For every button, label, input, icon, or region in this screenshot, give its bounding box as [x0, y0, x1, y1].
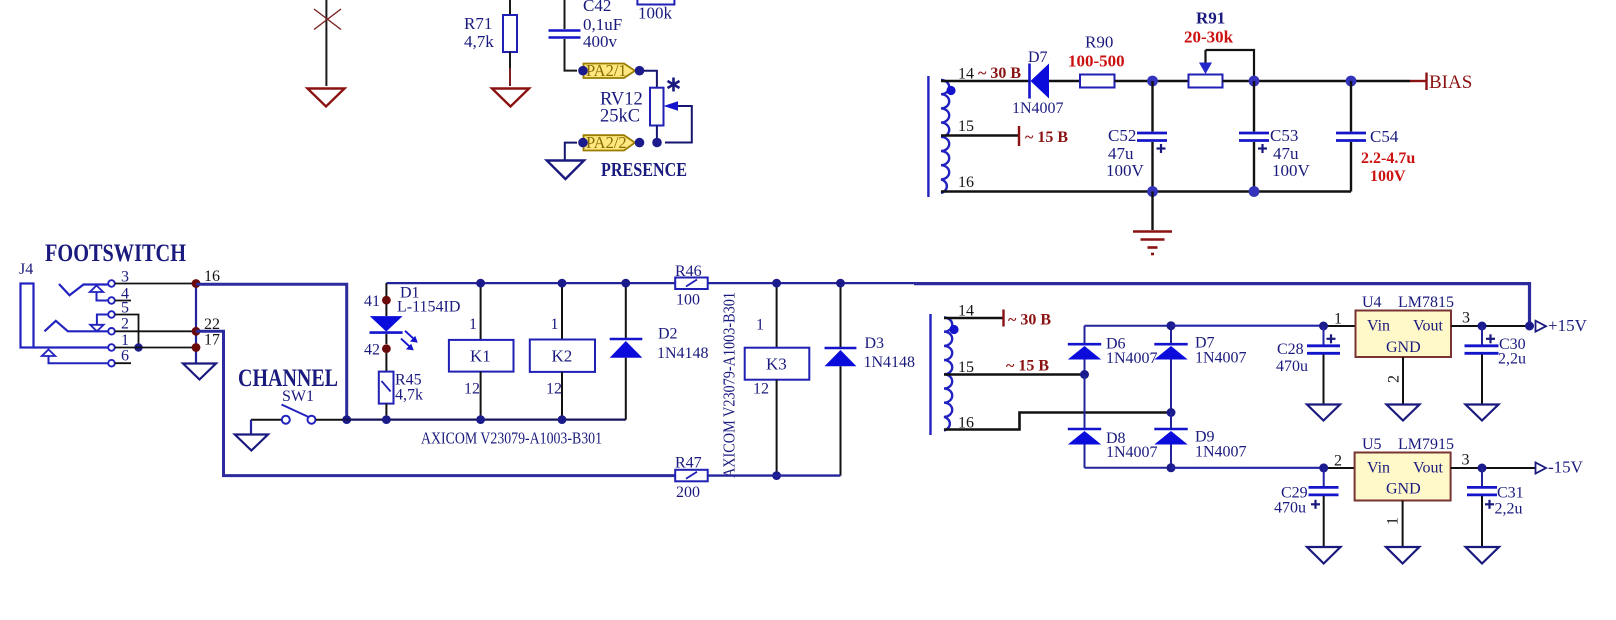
wire -rail to U5	[1171, 467, 1355, 469]
ground GND6	[235, 435, 268, 451]
label T1 pin 14	[958, 66, 974, 83]
node K2 top	[558, 279, 567, 288]
svg-text:100V: 100V	[1272, 161, 1311, 180]
svg-text:12: 12	[546, 381, 562, 398]
label D1	[397, 285, 460, 316]
ground GND7 (C28)	[1307, 405, 1340, 421]
svg-text:~ 15 B: ~ 15 B	[1025, 129, 1068, 146]
svg-text:-15V: -15V	[1548, 458, 1584, 477]
diode D8	[1068, 375, 1101, 468]
svg-text:2.2-4.7u: 2.2-4.7u	[1361, 150, 1415, 167]
label T1 pin 16	[958, 174, 974, 191]
node 16	[192, 268, 220, 288]
resistor R90	[1080, 75, 1115, 88]
label C42 value	[583, 0, 622, 51]
svg-text:1N4007: 1N4007	[1195, 444, 1247, 461]
svg-text:12: 12	[753, 381, 769, 398]
label D2	[657, 326, 709, 363]
ground GND1	[308, 89, 345, 107]
svg-text:2: 2	[121, 316, 129, 333]
wire SW1 to ground	[250, 420, 252, 434]
svg-text:1: 1	[1334, 311, 1342, 328]
node 22	[192, 316, 220, 336]
LED D1 emission arrows	[401, 331, 418, 351]
svg-text:SW1: SW1	[282, 388, 314, 405]
svg-text:C42: C42	[583, 0, 611, 15]
wire R46 to K3/D3 bus	[708, 282, 914, 284]
capacitor C52	[1137, 81, 1167, 192]
svg-text:U4: U4	[1362, 294, 1382, 311]
label CHANNEL	[238, 365, 338, 392]
potentiometer R91	[1189, 50, 1255, 88]
wire +15V feed bus (thick)	[914, 284, 1530, 327]
label U5 pin3	[1462, 452, 1470, 469]
label C29	[1274, 485, 1308, 517]
wire relay bottom bus	[343, 419, 626, 421]
regulator U5 LM7915	[1355, 453, 1451, 501]
label net ~30 B	[978, 65, 1021, 82]
ground GND9 (C30)	[1466, 405, 1499, 421]
ground GND5	[183, 364, 216, 380]
wire U5 gnd	[1402, 501, 1404, 547]
label net ~30 B (bottom)	[1008, 312, 1051, 329]
label U5 pin1	[1385, 517, 1402, 525]
label D7 (bridge)	[1195, 335, 1247, 367]
svg-text:200: 200	[676, 484, 700, 501]
svg-text:100k: 100k	[638, 4, 673, 23]
svg-text:17: 17	[204, 332, 220, 349]
label R45	[395, 372, 423, 404]
label net ~15 B (top)	[1025, 129, 1068, 146]
T1 polarity dot	[946, 86, 955, 95]
wire pin5 to pin1	[115, 315, 143, 352]
node D2 top	[621, 279, 630, 288]
node K1 top	[476, 279, 485, 288]
svg-text:BIAS: BIAS	[1429, 72, 1472, 93]
label D7	[1012, 49, 1064, 117]
svg-text:C53: C53	[1270, 126, 1298, 145]
svg-text:~ 30 B: ~ 30 B	[1008, 312, 1051, 329]
svg-text:2,2u: 2,2u	[1495, 501, 1523, 518]
resistor R47	[675, 470, 708, 482]
wire T1 pin15 stub	[941, 126, 1019, 146]
wire T2 pin16 to bridge	[944, 413, 1171, 430]
wire relay top bus	[386, 282, 675, 284]
node R45 bottom	[382, 415, 391, 424]
svg-text:~ 15 B: ~ 15 B	[1006, 358, 1049, 375]
svg-text:K3: K3	[766, 355, 787, 374]
wire R47 to D3 bottom	[708, 474, 841, 476]
label C52	[1106, 126, 1145, 180]
svg-text:~ 30 B: ~ 30 B	[978, 65, 1021, 82]
label AXICOM vertical	[720, 292, 739, 478]
capacitor C29	[1309, 468, 1339, 547]
node C29 top	[1319, 463, 1328, 472]
node SW1 output	[342, 415, 351, 424]
wire net22 bus	[196, 331, 675, 475]
label R46	[675, 263, 702, 309]
diode D2	[610, 283, 643, 420]
svg-text:20-30k: 20-30k	[1184, 28, 1234, 47]
svg-text:AXICOM V23079-A1003-B301: AXICOM V23079-A1003-B301	[421, 429, 602, 448]
label J4	[19, 261, 33, 278]
net tag PA2/2	[578, 133, 644, 152]
wire node16-22-17 vertical	[195, 284, 197, 364]
label K3 pins	[753, 317, 769, 398]
connector J4 body	[21, 284, 34, 348]
capacitor C53	[1239, 81, 1269, 192]
jack contact arrow to pin 4	[90, 286, 109, 301]
svg-text:3: 3	[1462, 310, 1470, 327]
label AXICOM horizontal	[421, 429, 602, 448]
node K3 bottom	[772, 471, 781, 480]
wire bridge negative rail	[1085, 467, 1172, 469]
label R90	[1068, 33, 1125, 71]
wire U5 vout to -15V	[1451, 467, 1535, 469]
svg-text:PA2/2: PA2/2	[586, 133, 627, 152]
svg-text:100V: 100V	[1106, 161, 1145, 180]
label R47	[675, 455, 702, 502]
node C28 top	[1319, 322, 1328, 331]
svg-text:400v: 400v	[583, 32, 618, 51]
ground GND12 (C31)	[1466, 547, 1499, 564]
label T2 pin 16	[958, 415, 974, 432]
wire U4 vout to +15V	[1451, 325, 1530, 327]
svg-text:15: 15	[958, 118, 974, 135]
capacitor C54	[1336, 81, 1366, 192]
node +15V junction	[1525, 322, 1534, 331]
relay K1	[449, 283, 514, 420]
svg-text:1: 1	[1385, 517, 1402, 525]
svg-text:1N4148: 1N4148	[657, 345, 709, 362]
capacitor C42	[549, 0, 581, 71]
svg-text:2: 2	[1386, 375, 1403, 383]
wire net16 bus	[196, 284, 347, 419]
wire pin2 to node 22	[115, 330, 196, 332]
label RV12 value	[600, 90, 643, 127]
wire T2 pin15 to bridge	[944, 373, 1085, 376]
node junction C54 top	[1346, 76, 1357, 87]
svg-text:D7: D7	[1028, 49, 1048, 66]
wire PA2/1 to RV12	[644, 71, 657, 88]
svg-text:U5: U5	[1362, 436, 1382, 453]
wire pin4 stub	[115, 300, 131, 302]
svg-text:GND: GND	[1386, 481, 1421, 498]
node 17	[192, 332, 220, 352]
label C53	[1270, 126, 1311, 180]
svg-text:PRESENCE: PRESENCE	[601, 159, 687, 181]
wire T2 pin14 stub	[944, 310, 1004, 327]
wire T1 pin16 ground rail	[941, 190, 1351, 192]
label D1 pins 41/42	[364, 293, 380, 359]
label U4 pin1	[1334, 311, 1342, 328]
svg-text:C31: C31	[1497, 485, 1524, 502]
svg-text:16: 16	[204, 268, 220, 285]
svg-text:100-500: 100-500	[1068, 52, 1125, 71]
svg-text:Vin: Vin	[1367, 318, 1390, 335]
label U4	[1362, 294, 1454, 311]
resistor R71	[503, 0, 517, 86]
svg-text:D2: D2	[658, 326, 678, 343]
label U4 pin2	[1386, 375, 1403, 383]
label K2 pins	[546, 316, 562, 398]
svg-text:FOOTSWITCH: FOOTSWITCH	[45, 238, 186, 267]
regulator U4 LM7815	[1356, 311, 1452, 358]
jack ring contact (middle)	[45, 321, 109, 332]
port BIAS	[1410, 72, 1472, 93]
svg-text:4,7k: 4,7k	[464, 32, 494, 51]
svg-text:12: 12	[464, 381, 480, 398]
svg-text:R91: R91	[1196, 9, 1225, 28]
node junction C53 bottom	[1249, 186, 1260, 197]
earth ground GND4	[1133, 192, 1172, 255]
svg-text:Vin: Vin	[1367, 460, 1390, 477]
jack contact arrow to pin 5	[90, 315, 108, 332]
node C30 top	[1478, 322, 1487, 331]
node D3 top	[836, 279, 845, 288]
diode D3	[825, 283, 857, 476]
capacitor C28	[1307, 326, 1340, 404]
wire PA2/2 to ground	[565, 143, 577, 160]
svg-text:100: 100	[676, 292, 700, 309]
label U5 pin2	[1334, 453, 1342, 470]
svg-text:470u: 470u	[1274, 500, 1306, 517]
svg-text:+15V: +15V	[1548, 316, 1588, 335]
label T2 pin 15	[958, 359, 974, 376]
switch SW1	[251, 405, 343, 424]
ground GND10 (C29)	[1307, 547, 1341, 564]
wire +rail to U4	[1171, 325, 1356, 327]
label D8	[1106, 430, 1158, 461]
transformer T1 secondary winding	[928, 76, 949, 197]
wire T1 pin14 to D7	[941, 80, 1029, 82]
svg-text:C28: C28	[1277, 341, 1304, 358]
svg-text:C52: C52	[1108, 126, 1136, 145]
port +15V	[1536, 316, 1588, 335]
svg-text:R90: R90	[1085, 33, 1113, 52]
ground GND2	[492, 89, 529, 107]
J4 pin circles	[108, 280, 115, 366]
label PRESENCE	[601, 159, 687, 181]
svg-text:D3: D3	[865, 335, 885, 352]
svg-text:2: 2	[1334, 453, 1342, 470]
svg-text:GND: GND	[1386, 339, 1421, 356]
node bridge minus	[1167, 463, 1176, 472]
wire U4 gnd	[1402, 357, 1404, 404]
wire D7 to R90	[1049, 80, 1080, 82]
label C31	[1495, 485, 1524, 518]
label D3	[864, 335, 916, 371]
label SW1	[282, 388, 314, 405]
T2 polarity dot	[949, 325, 958, 334]
node K3 top	[772, 279, 781, 288]
svg-text:100V: 100V	[1370, 168, 1406, 185]
wire R90 to R91	[1115, 80, 1189, 82]
svg-text:1N4007: 1N4007	[1195, 350, 1247, 367]
svg-text:1: 1	[551, 316, 559, 333]
wire pin1 to node 17	[115, 347, 196, 349]
svg-text:L-1154ID: L-1154ID	[397, 299, 460, 316]
svg-text:J4: J4	[19, 261, 33, 278]
label FOOTSWITCH	[45, 238, 186, 267]
svg-text:3: 3	[1462, 452, 1470, 469]
ground GND8 (U4)	[1387, 405, 1420, 421]
port -15V	[1536, 458, 1584, 477]
svg-text:4,7k: 4,7k	[395, 387, 423, 404]
svg-text:R46: R46	[675, 263, 702, 280]
svg-text:16: 16	[958, 174, 974, 191]
net tag PA2/1	[578, 61, 644, 80]
svg-text:R71: R71	[464, 14, 492, 33]
diode D6	[1068, 326, 1101, 375]
svg-text:1N4007: 1N4007	[1012, 100, 1064, 117]
relay K3	[745, 283, 810, 476]
svg-text:C54: C54	[1370, 127, 1399, 146]
label U5	[1362, 436, 1454, 453]
svg-text:LM7815: LM7815	[1398, 294, 1454, 311]
node pin15 junction	[1080, 370, 1089, 379]
capacitor C31	[1467, 468, 1497, 547]
diode D7 (bias)	[1030, 64, 1050, 99]
svg-text:Vout: Vout	[1413, 460, 1443, 477]
node junction C52 bottom	[1147, 186, 1158, 197]
wire pin3 to node 16	[115, 283, 196, 285]
svg-text:2,2u: 2,2u	[1498, 351, 1526, 368]
label R71 value	[464, 14, 494, 51]
LED D1	[370, 283, 403, 372]
label net ~15 B (bottom)	[1006, 358, 1049, 375]
svg-text:Vout: Vout	[1413, 318, 1443, 335]
svg-text:1N4007: 1N4007	[1106, 444, 1158, 461]
wire pin6 stub	[115, 362, 131, 364]
node C31 top	[1478, 464, 1487, 473]
relay K2	[530, 283, 595, 420]
label K1 pins	[464, 316, 480, 398]
label C30	[1498, 336, 1526, 368]
node bridge plus	[1167, 321, 1176, 330]
label J4 pin numbers	[121, 269, 129, 365]
transformer T2 secondary winding	[931, 314, 953, 435]
svg-text:1: 1	[756, 317, 764, 334]
svg-text:1: 1	[121, 332, 129, 349]
svg-text:AXICOM V23079-A1003-B301: AXICOM V23079-A1003-B301	[720, 292, 739, 478]
svg-text:1N4148: 1N4148	[864, 354, 916, 371]
label C28	[1276, 341, 1308, 375]
diode D9	[1154, 413, 1187, 468]
node pin16 junction	[1167, 408, 1176, 417]
label C54	[1361, 127, 1415, 185]
resistor R45	[379, 372, 394, 416]
svg-text:1: 1	[469, 316, 477, 333]
svg-text:42: 42	[364, 342, 380, 359]
svg-text:R47: R47	[675, 455, 702, 472]
svg-text:K2: K2	[552, 347, 573, 366]
wire J4 sleeve to pin 1	[34, 346, 109, 348]
node junction C52 top	[1147, 76, 1158, 87]
svg-text:25kC: 25kC	[600, 107, 640, 127]
svg-text:1N4007: 1N4007	[1106, 350, 1158, 367]
node K1 bottom	[476, 415, 485, 424]
svg-text:470u: 470u	[1276, 358, 1308, 375]
label T1 pin 15	[958, 118, 974, 135]
ground GND3	[547, 161, 584, 180]
svg-text:K1: K1	[470, 347, 491, 366]
resistor R73 100k (partial at top edge)	[637, 0, 674, 23]
svg-text:LM7915: LM7915	[1398, 436, 1454, 453]
svg-text:41: 41	[364, 293, 380, 310]
wire R91 to BIAS	[1223, 80, 1411, 82]
label D6	[1106, 336, 1158, 368]
node K2 bottom	[558, 415, 567, 424]
label R91	[1184, 9, 1234, 47]
label T2 pin 14	[958, 303, 974, 320]
svg-text:PA2/1: PA2/1	[586, 61, 627, 80]
wire unused-net	[325, 0, 327, 86]
capacitor C30	[1465, 326, 1499, 404]
label U4 pin3	[1462, 310, 1470, 327]
label D9	[1195, 429, 1247, 461]
jack tip contact (upper)	[59, 284, 108, 295]
jack contact arrow to pin 6	[42, 350, 109, 364]
potentiometer RV12	[650, 88, 692, 148]
no-connect X mark	[314, 9, 341, 30]
wire bridge positive rail	[1085, 325, 1172, 327]
diode D7 (bridge)	[1154, 326, 1187, 413]
resistor R46	[675, 278, 708, 290]
svg-text:6: 6	[121, 348, 129, 365]
node junction C53 top	[1249, 76, 1260, 87]
ground GND11 (U5)	[1386, 547, 1419, 564]
label RV12 asterisk	[668, 78, 680, 92]
